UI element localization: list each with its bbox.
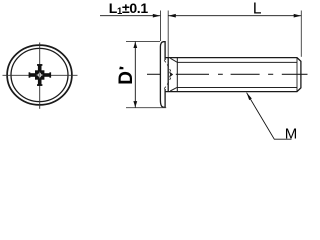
svg-text:D: D: [116, 71, 137, 85]
svg-text:L: L: [253, 1, 262, 18]
svg-text:L1±0.1: L1±0.1: [109, 0, 149, 17]
svg-text:M: M: [285, 126, 298, 143]
